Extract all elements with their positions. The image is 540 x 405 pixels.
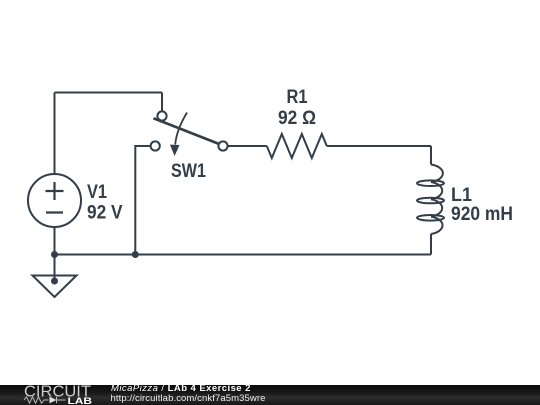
wire R1 to top-right corner	[327, 145, 431, 147]
footer credit line 1	[111, 384, 251, 395]
wire from switch lower-left terminal	[135, 146, 150, 255]
svg-text:V1: V1	[87, 182, 107, 203]
node junction switch branch	[132, 251, 139, 258]
wire top horizontal	[55, 92, 163, 94]
switch pin 3 (lower-left terminal)	[151, 141, 160, 150]
resistor R1	[267, 134, 327, 158]
switch pin 2 (right terminal)	[218, 141, 227, 150]
wire L1 bottom lead	[430, 234, 432, 255]
switch actuation arrow	[175, 113, 187, 145]
wire switch top lead	[161, 93, 163, 111]
inductor L1	[417, 165, 444, 235]
svg-text:920 mH: 920 mH	[451, 204, 513, 225]
CircuitLab logo diode triangle	[50, 397, 57, 404]
wire switch right terminal to R1	[228, 145, 266, 147]
node junction V1-ground	[51, 251, 58, 258]
footer bar	[0, 385, 540, 405]
footer credit line 2	[111, 394, 266, 405]
svg-text:R1: R1	[287, 87, 308, 108]
ground node dot	[51, 278, 58, 285]
svg-text:92 V: 92 V	[87, 203, 123, 224]
wire left vertical (V1 top lead)	[54, 93, 56, 175]
switch SW1	[151, 111, 228, 156]
wire V1 bottom lead	[54, 227, 56, 255]
svg-text:L1: L1	[451, 185, 472, 206]
wire to ground	[54, 255, 56, 282]
svg-text:SW1: SW1	[171, 161, 206, 182]
switch blade	[154, 118, 219, 143]
svg-text:92 Ω: 92 Ω	[278, 108, 316, 129]
wire right vertical (L1 top lead)	[430, 146, 432, 165]
ground	[33, 276, 77, 298]
svg-text:LAB: LAB	[68, 396, 93, 405]
wire bottom horizontal	[55, 254, 432, 256]
switch pin 1 (top terminal)	[157, 111, 166, 120]
CircuitLab logo resistor zigzag and diode	[24, 397, 66, 403]
voltage source V1	[28, 174, 81, 227]
